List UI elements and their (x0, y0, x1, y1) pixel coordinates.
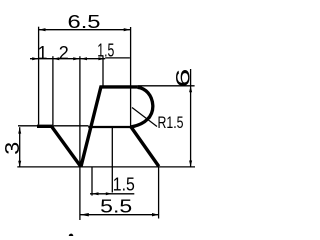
extension line left (x=38.5) (38, 27, 40, 125)
R top bar thick (100, 85, 138, 88)
svg-text:1.5: 1.5 (97, 40, 114, 60)
svg-text:6.5: 6.5 (68, 12, 101, 32)
extension line right (x=131) (130, 27, 132, 128)
row arrow outside-left pointing right at 38.6 (32, 57, 38, 60)
cut-off mark at bottom edge (69, 234, 74, 236)
R1.5 leader line (132, 108, 157, 127)
dimension 3 top arrow (18, 127, 21, 133)
R bowl arc (131, 87, 153, 127)
svg-text:R1.5: R1.5 (158, 114, 184, 132)
svg-text:1: 1 (37, 43, 47, 63)
svg-text:1.5: 1.5 (113, 175, 135, 195)
svg-text:2: 2 (59, 43, 69, 63)
dimension 6 top arrow (189, 86, 192, 92)
top surface thin line (18, 125, 89, 127)
row arrow pointing left at 80.4 (80, 57, 87, 60)
extension line x=103 (102, 56, 104, 87)
5.5 dim line (80, 214, 159, 216)
dimension row 1/2/1.5 line (30, 58, 105, 60)
5.5 extension x=158.5 (158, 167, 160, 218)
dimension 3 bottom arrow (18, 161, 21, 167)
dimension 6.5 right arrow (124, 28, 131, 31)
R1.5 leader tick (145, 118, 151, 122)
row dim line extension under 1.5 text (105, 57, 130, 59)
row arrow pointing right at 79.9 (73, 57, 80, 60)
bottom 1.5 dim line (90, 193, 134, 195)
svg-text:5.5: 5.5 (100, 196, 132, 216)
5.5 left arrow (80, 213, 89, 216)
dimension 6.5 line (39, 29, 131, 31)
R leg thick (131, 127, 159, 167)
svg-text:3: 3 (2, 142, 24, 155)
svg-text:6: 6 (174, 69, 195, 88)
bottom 1.5 left arrow (92, 192, 99, 195)
R mid horizontal (88, 126, 131, 128)
dimension 6 bottom arrow (189, 161, 192, 167)
extension line x=52.7 (52, 56, 54, 125)
row arrow pointing right at 105.2 (98, 57, 105, 60)
dimension 6 extension hline (138, 85, 195, 87)
5.5 right arrow (152, 213, 159, 216)
V left stroke thick (52, 127, 81, 167)
dimension 6.5 left arrow (39, 28, 46, 31)
bottom 1.5 right arrow (106, 192, 113, 195)
V right stroke / R stem thick (81, 87, 101, 167)
baseline thin line (17, 166, 195, 168)
bottom 1.5 extension x=92 (91, 167, 93, 196)
V top bar thick (37, 125, 53, 128)
dimension 3 vertical line (19, 127, 21, 167)
dimension 6 vertical line (190, 69, 192, 167)
bottom 1.5 extension x=112.3 (111, 127, 113, 193)
row arrow pointing left at 52.9 (53, 57, 59, 60)
extension line x=79.7 (V tip, runs to 5.5 dim) (79, 56, 81, 220)
